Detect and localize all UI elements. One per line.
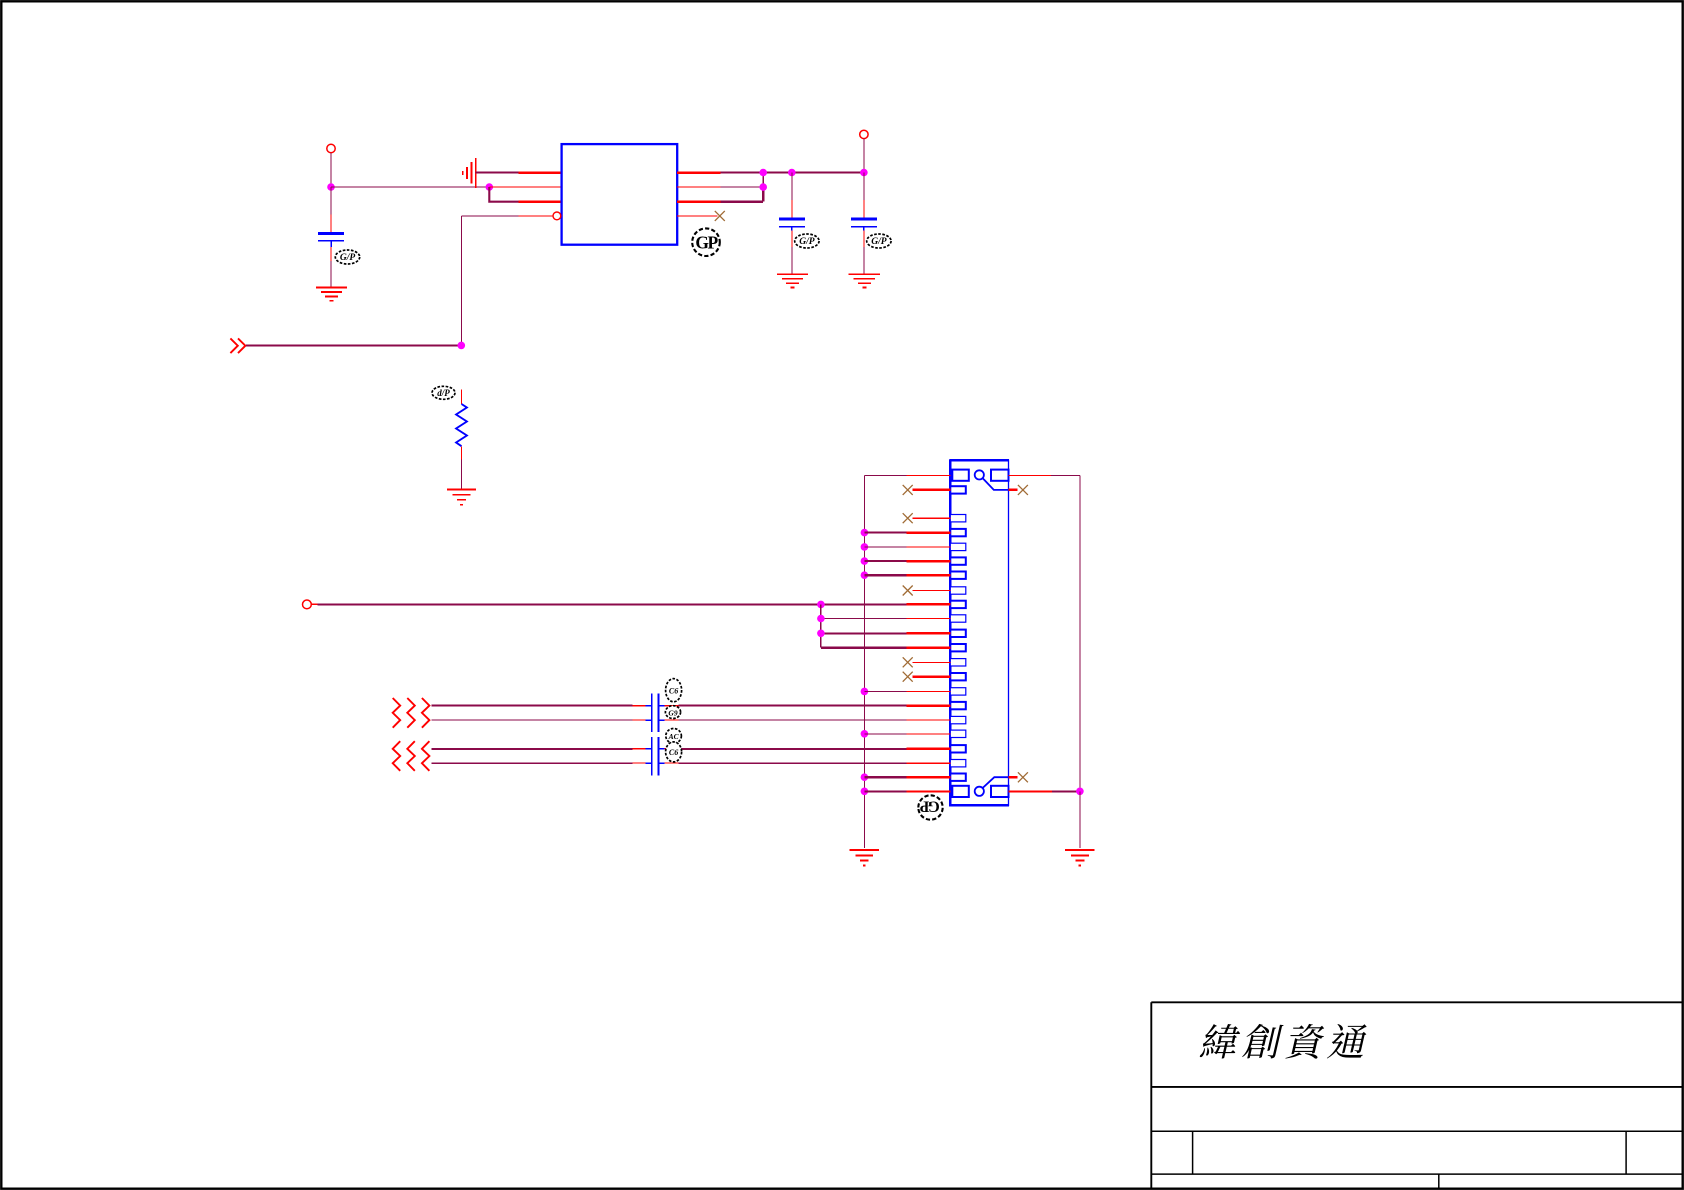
junction [861, 773, 869, 781]
wire pair B- [432, 762, 633, 764]
connector J1 pin @y=590.5 [950, 587, 966, 594]
wire long net [317, 603, 821, 605]
labels G/P capacitor array [666, 679, 682, 702]
label GP stamp [692, 228, 720, 256]
pin 4 U1 inverted bubble [462, 215, 519, 217]
connector J1 pin @y=705.6 [950, 702, 966, 709]
connector J1 pin @y=777.2 [950, 774, 966, 781]
label G/P R1 [432, 386, 455, 399]
wire pair A+ [432, 705, 633, 707]
label G/P C1 [335, 250, 359, 264]
no-connect X [1018, 485, 1028, 495]
wire pin7 U1 [677, 186, 721, 188]
junction [861, 529, 869, 537]
connector J1 pin @y=633.3 [950, 630, 966, 637]
wire shield top right [1009, 474, 1052, 476]
wire shield top left [907, 474, 951, 476]
connector J1 pin @y=604.4 [950, 601, 966, 608]
junction [817, 630, 825, 638]
connector J1 pin @y=489.9 [950, 486, 966, 493]
junction [327, 183, 335, 191]
label G/P C2 [795, 234, 819, 248]
wire [863, 139, 865, 173]
svg-text:G9: G9 [668, 708, 677, 717]
capacitor C3 [863, 173, 865, 201]
junction [817, 615, 825, 623]
junction [817, 601, 825, 609]
junction [1076, 788, 1084, 796]
svg-text:G/P: G/P [799, 237, 815, 247]
svg-text:G/P: G/P [871, 237, 887, 247]
svg-text:G/P: G/P [340, 253, 356, 263]
ground [316, 286, 347, 288]
wire left ground bus [863, 475, 865, 848]
wire [311, 603, 317, 605]
junction [861, 730, 869, 738]
ground [777, 273, 808, 275]
wire pair B+ [432, 748, 633, 750]
junction [759, 169, 767, 177]
wire shield pin top right no-connect [1009, 489, 1018, 492]
connector J1 pin @y=691.4 [950, 688, 966, 695]
svg-text:GP: GP [695, 232, 718, 252]
logo Wistron 緯創資通 [1199, 1024, 1370, 1059]
label GP stamp (rotated) [918, 795, 942, 819]
ground [447, 488, 476, 490]
op-amp U1 regulator box [562, 144, 678, 245]
wire pin1 U1 [476, 171, 519, 173]
connector J1 pin @y=748.8 [950, 745, 966, 752]
connector J1 pin @y=575.2 [950, 572, 966, 579]
node VOUT connector pin [860, 130, 868, 138]
connector J1 pin @y=763.2 [950, 760, 966, 767]
label G/P C3 [867, 234, 891, 248]
connector J1 pin @y=733.8 [950, 730, 966, 737]
ground [1065, 849, 1094, 851]
wire pin3 U1 [489, 187, 518, 202]
svg-text:GP: GP [919, 797, 940, 814]
no-connect X [903, 657, 913, 667]
junction [861, 543, 869, 551]
junction [759, 183, 767, 191]
connector J1 body [950, 460, 1008, 805]
chassis ground (rotated) [475, 158, 477, 188]
connector J1 top shield tab [952, 470, 969, 481]
wire right bus [1079, 475, 1081, 791]
junction [861, 557, 869, 565]
no-connect X [903, 513, 913, 523]
wire pin6 U1 [677, 200, 721, 203]
connector J1 pin @y=676.7 [950, 673, 966, 680]
wire net input [246, 344, 461, 346]
svg-text:C6: C6 [669, 748, 678, 757]
wire pin5 U1 no-connect [677, 215, 717, 217]
junction [861, 788, 869, 796]
connector J1 pin @y=518.2 [950, 515, 966, 522]
junction [486, 183, 494, 191]
wire [1079, 791, 1081, 848]
junction [861, 571, 869, 579]
connector J1 pin @y=720.1 [950, 716, 966, 723]
connector J1 pin @y=561.1 [950, 557, 966, 564]
junction [458, 342, 466, 350]
no-connect X [903, 672, 913, 682]
wire fan vertical [820, 604, 822, 647]
capacitor array CB (pair B) [651, 737, 653, 776]
connector J1 pin @y=647.7 [950, 644, 966, 651]
wire pin8 U1 / VOUT rail [677, 171, 721, 174]
wire shield bottom right [1009, 790, 1052, 792]
no-connect X [903, 586, 913, 596]
connector J1 bottom shield tab [952, 786, 969, 797]
resistor R1 [461, 390, 463, 405]
title block [1151, 1002, 1682, 1188]
wire pair A- [432, 719, 633, 721]
connector J1 pin @y=662.3 [950, 659, 966, 666]
no-connect X [1018, 772, 1028, 782]
ground [850, 849, 879, 851]
capacitor array CA (pair A) [651, 693, 653, 732]
wire pin2 U1 [489, 186, 561, 188]
off-page chevrons pair B [393, 741, 401, 771]
wire [331, 186, 489, 188]
connector J1 pin @y=546.9 [950, 543, 966, 550]
off-page arrow >> [230, 338, 245, 353]
connector J1 pin @y=618.5 [950, 615, 966, 622]
wire [330, 153, 332, 187]
capacitor C2 [791, 173, 793, 201]
node input connector pin [303, 600, 312, 609]
wire shield pin bottom right no-connect [1009, 776, 1018, 779]
svg-text:d/P: d/P [437, 388, 450, 398]
svg-text:C6: C6 [669, 686, 678, 695]
no-connect X [903, 485, 913, 495]
junction [861, 688, 869, 696]
junction [788, 169, 796, 177]
no-connect X [715, 211, 725, 221]
capacitor C1 [330, 187, 332, 215]
svg-text:AC: AC [668, 732, 680, 741]
connector J1 pin @y=532.6 [950, 529, 966, 536]
ground [849, 273, 880, 275]
wire [461, 216, 463, 346]
junction [860, 169, 868, 177]
off-page chevrons pair A [393, 698, 401, 728]
node VIN connector pin [327, 144, 335, 152]
